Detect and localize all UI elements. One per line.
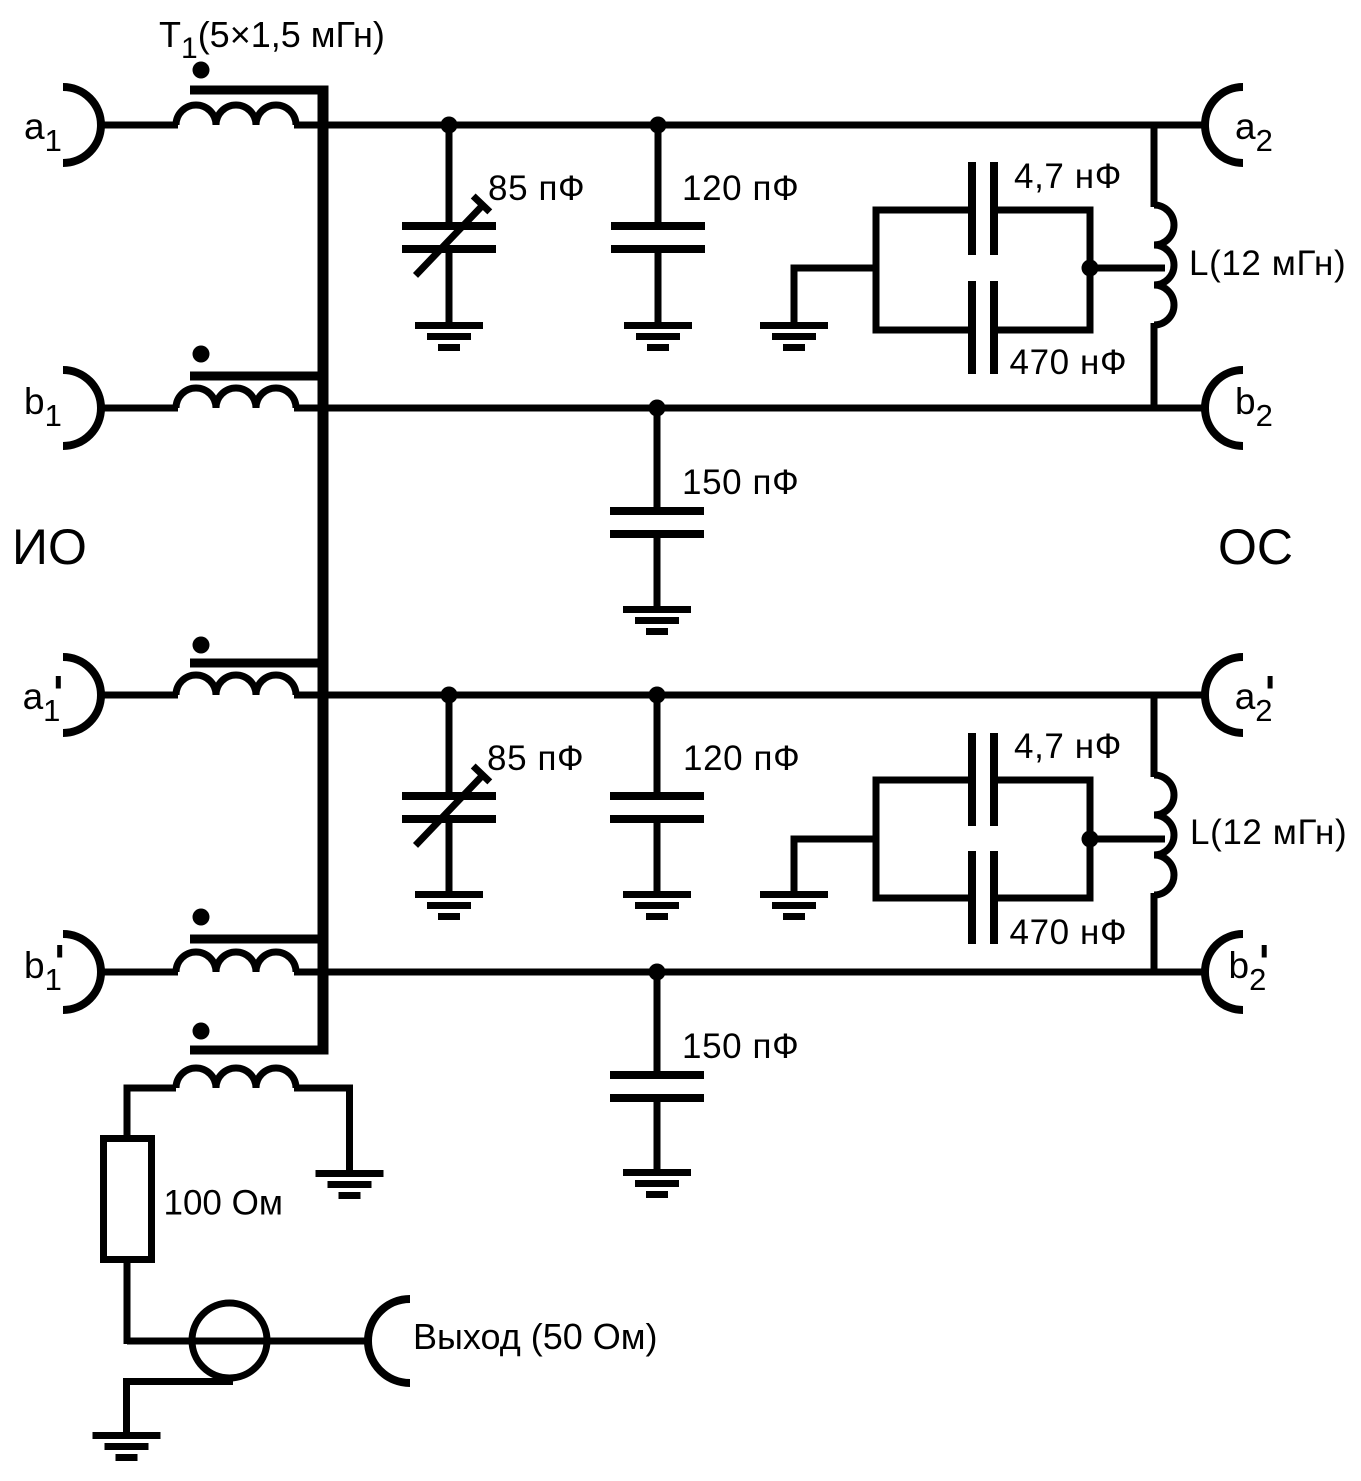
inductor L upper: bottom lead [1151,323,1158,408]
variable arrow crossbar 85 пФ upper [473,196,490,212]
wire b' rail: winding 4 to terminal b2' [294,969,1207,976]
wire b rail: winding 2 to terminal b2 [294,405,1207,412]
T1 winding 2 [176,388,296,408]
svg-text:4,7 нФ: 4,7 нФ [1014,727,1122,766]
terminal b1' [63,934,101,1010]
capacitor 85 пФ upper: bottom lead [446,253,453,324]
svg-text:470 нФ: 470 нФ [1010,343,1128,382]
ground output [93,1432,161,1461]
ground wire of compound capacitor lower [794,839,876,893]
capacitor 4,7 нФ upper: plates [968,162,998,255]
svg-text:100 Ом: 100 Ом [164,1184,283,1223]
coax shield tangent wire [127,1382,234,1436]
compound capacitor frame lower [876,777,1090,902]
wire b1 to winding 2 [101,405,178,412]
T1 winding 3 [176,675,296,695]
variable arrow 85 пФ lower [416,776,483,845]
capacitor 470 нФ lower: plates [968,851,998,944]
svg-text:L(12 мГн): L(12 мГн) [1189,244,1346,283]
ground wire of compound capacitor upper [794,268,876,324]
prime of b2' [1262,945,1267,958]
terminal a1' [63,657,101,733]
svg-text:L(12 мГн): L(12 мГн) [1190,813,1347,852]
capacitor 150 пФ lower: top lead [654,972,661,1073]
node tap lower [1082,831,1099,848]
wire a' rail: winding 3 to terminal a2' [294,692,1207,699]
wire a1 to winding 1 [101,122,178,129]
transformer T1 common core bus [318,86,329,1055]
ground 85 пФ lower [415,891,483,920]
terminal a1 [63,87,101,163]
svg-text:85 пФ: 85 пФ [488,169,585,208]
ground 120 пФ lower [623,891,691,920]
svg-text:4,7 нФ: 4,7 нФ [1014,157,1122,196]
node b'-rail / C150' [649,964,666,981]
T1 winding 1 [176,105,296,125]
capacitor 120 пФ upper: top lead [655,125,662,224]
T1 winding 4 [176,952,296,972]
svg-text:470 нФ: 470 нФ [1010,913,1128,952]
capacitor 4,7 нФ lower: plates [968,733,998,826]
resistor 100 Ом [104,1139,152,1260]
capacitor 120 пФ upper: plates [611,222,705,253]
T1 polarity dot winding 1 [193,62,210,79]
ground compound capacitor lower [760,891,828,920]
terminal Выход [368,1299,410,1383]
capacitor 150 пФ lower: plates [610,1071,704,1102]
terminal a2' [1205,657,1243,733]
ground compound capacitor upper [760,322,828,351]
T1 core bar winding 4 [190,935,329,944]
wire b1' to winding 4 [101,969,178,976]
capacitor 150 пФ upper: plates [610,507,704,538]
node a'-rail / C120' [649,687,666,704]
coax probe circle [192,1303,267,1378]
inductor L lower: top lead [1151,695,1158,777]
capacitor 120 пФ lower: top lead [654,695,661,794]
capacitor 150 пФ upper: top lead [654,408,661,509]
variable arrow crossbar 85 пФ lower [473,766,490,782]
capacitor 120 пФ lower: plates [610,792,704,823]
terminal b2' [1205,934,1243,1010]
T1 polarity dot winding 5 [193,1023,210,1040]
prime of a1' [56,676,61,689]
wire winding 5 left lead [127,1088,176,1138]
T1 polarity dot winding 3 [193,637,210,654]
wire a rail: winding 1 to terminal a2 [294,122,1207,129]
inductor L upper: top lead [1151,125,1158,207]
T1 polarity dot winding 4 [193,909,210,926]
ground 150 пФ upper [623,606,691,635]
svg-text:ИО: ИО [12,519,87,575]
ground winding 5 [316,1170,384,1199]
T1 polarity dot winding 2 [193,346,210,363]
capacitor 150 пФ lower: bottom lead [654,1102,661,1171]
T1 core bar winding 1 [190,86,329,95]
svg-text:Выход (50 Ом): Выход (50 Ом) [413,1316,658,1357]
compound capacitor frame upper [876,207,1090,334]
wire winding 5 right lead [294,1088,350,1170]
capacitor 120 пФ upper: bottom lead [655,253,662,324]
svg-text:120 пФ: 120 пФ [682,169,799,208]
capacitor 470 нФ upper: plates [968,281,998,374]
terminal b2 [1205,370,1243,446]
capacitor 85 пФ upper: plates [402,222,496,253]
prime of b1' [57,945,62,958]
wire tap to inductor lower [1090,836,1165,843]
svg-text:150 пФ: 150 пФ [682,1027,799,1066]
capacitor 85 пФ lower: plates [402,792,496,823]
terminal b1 [63,370,101,446]
capacitor 120 пФ lower: bottom lead [654,823,661,893]
ground 85 пФ upper [415,322,483,351]
node a'-rail / C85' [441,687,458,704]
node a-rail / C85 [441,117,458,134]
T1 winding 5 [176,1068,296,1088]
capacitor 85 пФ upper: top lead [446,125,453,224]
node a-rail / C120 [650,117,667,134]
svg-text:120 пФ: 120 пФ [683,739,800,778]
ground 150 пФ lower [623,1169,691,1198]
wire tap to inductor upper [1090,265,1165,272]
T1 core bar winding 5 [190,1046,329,1055]
T1 core bar winding 3 [190,659,329,668]
inductor L lower: humps [1154,775,1174,895]
terminal a2 [1205,87,1243,163]
capacitor 150 пФ upper: bottom lead [654,538,661,608]
inductor L lower: bottom lead [1151,893,1158,972]
svg-text:150 пФ: 150 пФ [682,463,799,502]
ground 120 пФ upper [624,322,692,351]
wire output line [127,1338,370,1345]
prime of a2' [1268,676,1273,689]
svg-text:85 пФ: 85 пФ [487,739,584,778]
node tap upper [1082,260,1099,277]
inductor L upper: humps [1154,205,1174,325]
T1 core bar winding 2 [190,372,329,381]
variable arrow 85 пФ upper [416,206,483,275]
capacitor 85 пФ lower: bottom lead [446,823,453,893]
node b-rail / C150 [649,400,666,417]
capacitor 85 пФ lower: top lead [446,695,453,794]
wire resistor to output [124,1263,131,1344]
svg-text:ОС: ОС [1218,519,1293,575]
wire a1' to winding 3 [101,692,178,699]
